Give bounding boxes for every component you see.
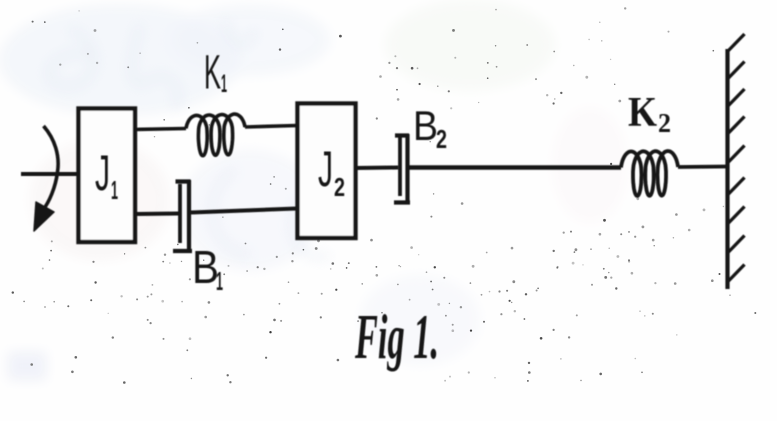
damper B2 cylinder (394, 134, 410, 203)
wire damper B1 to J2 (191, 209, 297, 213)
svg-text:2: 2 (658, 108, 671, 138)
svg-text:2: 2 (436, 124, 447, 154)
svg-text:K: K (628, 90, 657, 136)
wire J2 to damper B2 (356, 166, 399, 171)
wire spring K2 to wall (678, 165, 728, 169)
svg-text:B: B (192, 241, 219, 293)
wire J1 to spring K1 (135, 129, 186, 130)
watermark strokes (49, 20, 330, 257)
svg-text:1: 1 (221, 70, 227, 98)
wire J1 to damper B1 (135, 212, 179, 217)
svg-text:K: K (204, 47, 221, 100)
inertia J1 box (79, 109, 136, 243)
svg-text:Fig 1.: Fig 1. (354, 301, 439, 372)
damper B2 piston (398, 136, 402, 196)
inertia J2 box (298, 104, 356, 239)
svg-text:1: 1 (216, 266, 223, 296)
wire spring K1 to J2 (245, 126, 297, 128)
svg-text:B: B (413, 102, 438, 149)
svg-text:1: 1 (111, 175, 118, 205)
wire damper B2 to spring K2 (409, 165, 621, 170)
wall line (725, 49, 729, 289)
svg-text:2: 2 (334, 172, 345, 202)
spring K2 (621, 151, 678, 196)
damper B1 cylinder (173, 180, 192, 251)
svg-text:J: J (95, 145, 110, 201)
input torque arrow arc (43, 126, 58, 210)
svg-text:J: J (318, 141, 333, 197)
spring K1 (186, 114, 245, 156)
damper B1 piston (178, 184, 182, 243)
watermark tints (0, 0, 628, 380)
input shaft line (21, 172, 78, 176)
wall hatching (728, 34, 745, 282)
input torque arrowhead (34, 202, 54, 231)
